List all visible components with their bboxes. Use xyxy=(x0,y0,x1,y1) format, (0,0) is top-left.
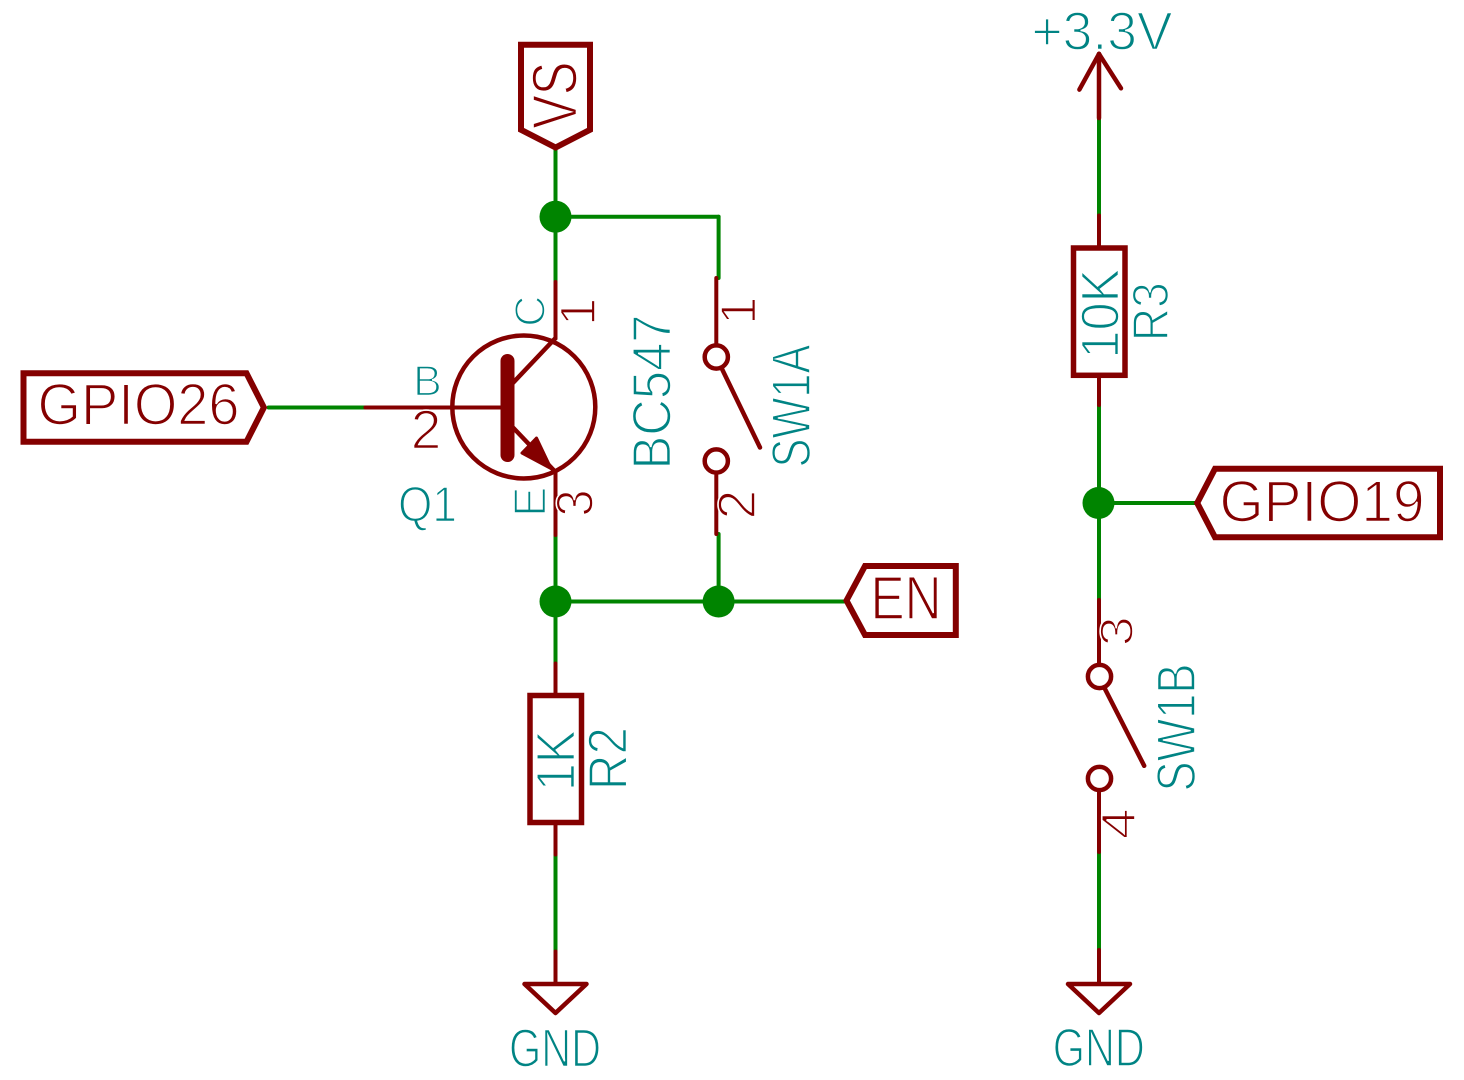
svg-text:GPIO26: GPIO26 xyxy=(38,373,240,438)
svg-text:2: 2 xyxy=(708,490,767,519)
svg-text:GND: GND xyxy=(1053,1018,1145,1078)
svg-text:Q1: Q1 xyxy=(398,477,457,533)
svg-text:EN: EN xyxy=(871,564,942,632)
svg-text:VS: VS xyxy=(521,62,591,129)
svg-text:GND: GND xyxy=(509,1018,601,1078)
svg-text:4: 4 xyxy=(1093,808,1146,839)
svg-text:C: C xyxy=(506,296,554,327)
svg-text:+3.3V: +3.3V xyxy=(1032,1,1173,61)
svg-text:R2: R2 xyxy=(576,727,638,790)
svg-text:GPIO19: GPIO19 xyxy=(1220,469,1425,534)
svg-text:1: 1 xyxy=(710,297,766,325)
svg-text:SW1A: SW1A xyxy=(760,344,822,467)
svg-text:E: E xyxy=(505,487,556,517)
svg-text:1: 1 xyxy=(550,298,606,326)
svg-text:SW1B: SW1B xyxy=(1145,664,1207,792)
svg-text:BC547: BC547 xyxy=(621,315,683,470)
svg-text:B: B xyxy=(413,357,442,405)
svg-text:3: 3 xyxy=(1091,616,1143,646)
svg-text:R3: R3 xyxy=(1122,282,1179,341)
svg-text:2: 2 xyxy=(411,399,442,461)
